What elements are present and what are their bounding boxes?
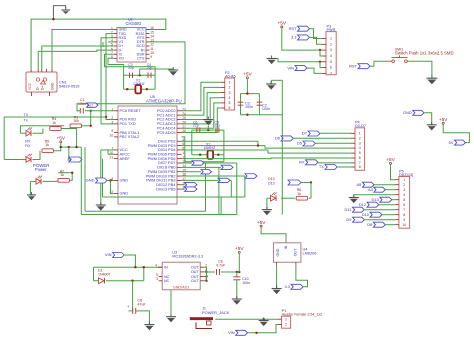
svg-text:RST: RST [289,26,298,31]
svg-text:TX: TX [24,113,29,117]
svg-text:RX: RX [25,144,31,148]
svg-text:100n: 100n [242,281,250,285]
svg-text:RX: RX [299,160,305,165]
svg-text:CH340G: CH340G [126,21,142,26]
svg-text:D5: D5 [297,141,303,146]
svg-text:5: 5 [330,60,332,64]
svg-text:D13: D13 [268,177,275,181]
svg-text:2: 2 [285,323,287,327]
svg-text:OUT: OUT [191,270,200,274]
svg-text:PB7 XTAL2: PB7 XTAL2 [120,135,140,139]
svg-text:1k: 1k [52,121,56,125]
svg-text:8: 8 [359,165,361,169]
svg-text:TX: TX [319,164,324,169]
svg-text:VIN: VIN [105,252,112,257]
svg-text:GND: GND [120,179,129,183]
svg-text:2: 2 [403,183,405,187]
svg-text:2: 2 [359,136,361,140]
svg-text:GND: GND [51,82,55,90]
svg-text:D8-D13[: D8-D13[ [399,173,414,177]
svg-text:D+: D+ [41,86,45,90]
svg-text:D9: D9 [346,217,352,222]
svg-text:3: 3 [111,120,113,124]
svg-text:22p: 22p [215,124,221,128]
svg-text:9: 9 [150,55,152,59]
svg-text:6: 6 [330,66,332,70]
svg-text:GND: GND [86,178,95,183]
svg-text:5: 5 [403,198,405,202]
svg-text:PWR: PWR [327,28,336,32]
svg-text:4: 4 [330,54,332,58]
svg-text:54819-0519: 54819-0519 [59,85,79,89]
svg-text:1: 1 [229,81,231,85]
svg-text:VIN: VIN [287,65,294,70]
svg-text:12MHZ: 12MHZ [133,82,146,86]
svg-text:Tx: Tx [24,118,28,122]
svg-text:OUT: OUT [191,279,200,283]
svg-text:3: 3 [359,141,361,145]
svg-text:22p: 22p [128,66,134,70]
svg-text:GND: GND [276,248,280,256]
svg-text:1k: 1k [45,143,49,147]
svg-text:D10: D10 [362,212,370,217]
svg-text:5: 5 [229,101,231,105]
svg-text:7: 7 [403,208,405,212]
svg-text:7: 7 [330,72,332,76]
svg-text:D6: D6 [275,136,281,141]
svg-text:1: 1 [285,317,287,321]
svg-text:47uF: 47uF [138,303,147,307]
svg-text:D12: D12 [359,202,366,207]
svg-text:D13: D13 [372,197,380,202]
svg-text:RX: RX [25,140,31,144]
svg-text:2: 2 [229,86,231,90]
svg-text:100n: 100n [245,105,253,109]
svg-text:10: 10 [402,223,406,227]
svg-text:IN: IN [164,266,168,270]
svg-text:D11: D11 [345,207,353,212]
svg-text:3.3: 3.3 [291,35,297,40]
svg-text:OUT: OUT [191,266,200,270]
svg-text:10k: 10k [73,119,79,123]
svg-text:Switch Push 1x1 3x6x2.5 SMD: Switch Push 1x1 3x6x2.5 SMD [395,51,454,56]
svg-text:A0-A5: A0-A5 [225,74,236,78]
svg-text:GND: GND [403,110,412,115]
svg-text:3.3: 3.3 [284,284,290,289]
svg-text:3: 3 [330,48,332,52]
svg-text:3: 3 [229,91,231,95]
svg-text:5V: 5V [68,158,73,162]
svg-text:PC5 ADC5: PC5 ADC5 [157,131,176,135]
svg-text:IN: IN [284,245,288,249]
svg-text:DIG13 PB5: DIG13 PB5 [156,187,175,191]
svg-text:A4: A4 [368,187,374,192]
svg-text:D13: D13 [268,181,275,185]
svg-text:1: 1 [330,37,332,41]
svg-text:D0-D7: D0-D7 [355,124,366,128]
svg-text:VIN: VIN [228,330,235,335]
svg-text:4: 4 [359,146,361,150]
svg-text:Power: Power [35,167,47,172]
svg-text:RST: RST [349,63,358,68]
svg-text:22p: 22p [147,66,153,70]
svg-text:6: 6 [403,203,405,207]
svg-text:5: 5 [359,151,361,155]
svg-text:NC: NC [164,279,170,283]
svg-text:8: 8 [403,213,405,217]
svg-text:POWER_JACK: POWER_JACK [202,310,230,315]
svg-text:D7: D7 [302,131,307,136]
svg-text:GND: GND [120,192,129,196]
svg-text:MC33269DR2-3.3: MC33269DR2-3.3 [172,254,203,258]
svg-text:5V: 5V [449,140,454,145]
svg-text:4.7uF: 4.7uF [216,264,226,268]
svg-text:21: 21 [109,155,113,159]
svg-text:CTS: CTS [137,57,145,61]
svg-text:D-: D- [36,86,40,90]
svg-text:OUT: OUT [294,248,298,256]
svg-text:VCC: VCC [28,82,32,90]
svg-text:10: 10 [109,134,113,138]
svg-text:1: 1 [359,131,361,135]
svg-text:D8: D8 [367,222,373,227]
svg-text:9: 9 [403,218,405,222]
svg-text:4: 4 [403,193,405,197]
svg-text:3: 3 [403,188,405,192]
svg-text:22p: 22p [193,124,199,128]
svg-text:6: 6 [359,156,361,160]
svg-text:100n: 100n [262,107,270,111]
svg-text:XO: XO [119,57,124,61]
svg-text:6: 6 [229,106,231,110]
svg-text:AREF: AREF [120,157,131,161]
svg-text:4: 4 [229,96,231,100]
svg-text:1N4007: 1N4007 [98,272,111,276]
svg-text:ATMEGA328P-PU: ATMEGA328P-PU [146,99,182,104]
svg-text:1k: 1k [297,192,301,196]
svg-text:A5: A5 [357,182,363,187]
svg-text:100n: 100n [78,102,86,106]
svg-text:2: 2 [330,42,332,46]
svg-text:RST: RST [88,103,94,107]
svg-text:3: 3 [156,277,158,281]
svg-text:4: 4 [155,264,157,268]
svg-text:PD1 TXD: PD1 TXD [120,122,136,126]
svg-text:LM6206: LM6206 [303,252,317,256]
svg-text:1k: 1k [60,173,64,177]
svg-text:GND/ADJ: GND/ADJ [173,285,189,289]
svg-text:PC6 RESET: PC6 RESET [120,109,142,113]
svg-text:1: 1 [403,178,405,182]
